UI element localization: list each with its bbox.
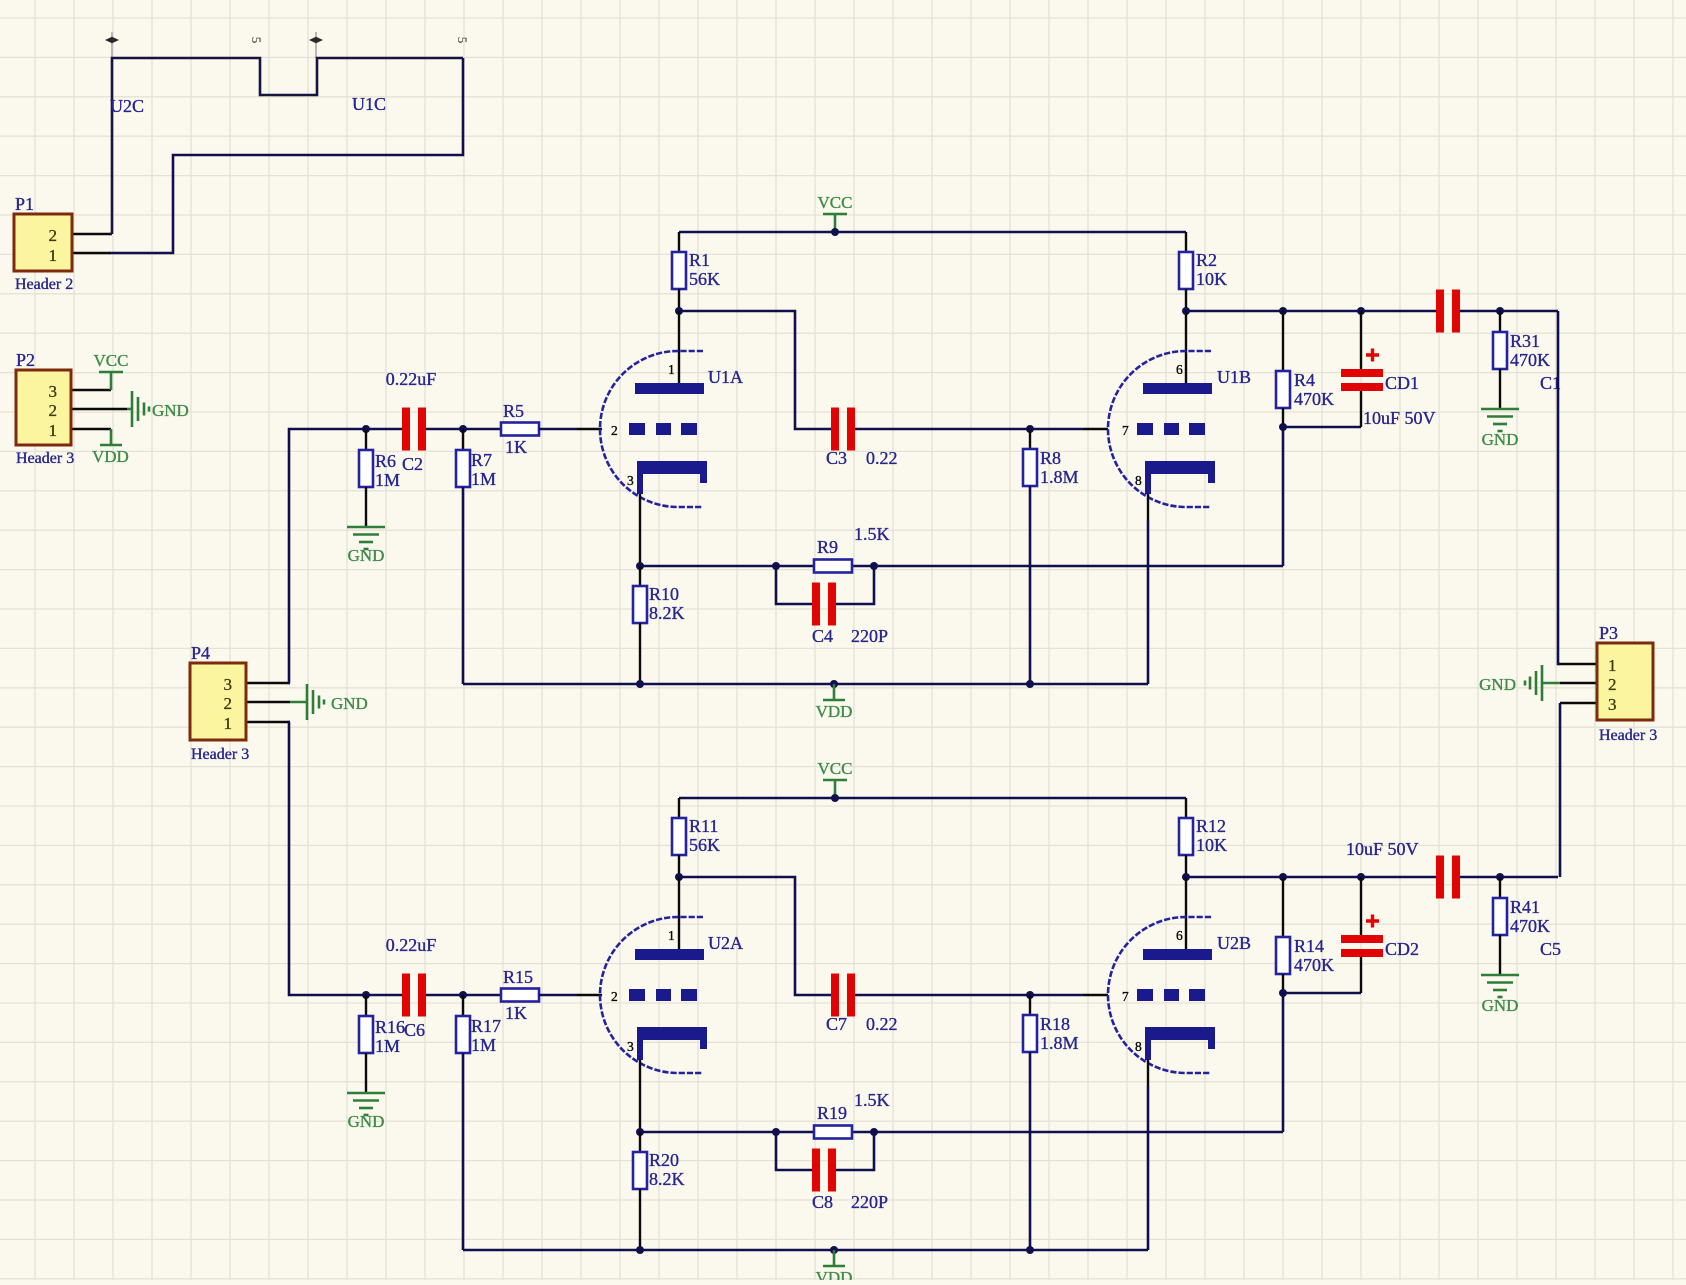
wire cathode U1B to VDD rail (1147, 520, 1150, 684)
power VCC (P2) (99, 372, 123, 390)
junction R9 right (870, 562, 878, 570)
svg-text:R7: R7 (471, 450, 492, 470)
svg-text:220P: 220P (851, 1192, 888, 1212)
svg-text:U1C: U1C (352, 94, 386, 114)
svg-text:GND: GND (348, 546, 385, 565)
svg-text:8: 8 (1135, 473, 1142, 488)
wire P3 pin2 to ground (1542, 682, 1560, 685)
wire R14 to CD2 bottom (1283, 992, 1361, 995)
junction cathode U2A (636, 1128, 644, 1136)
svg-text:C3: C3 (826, 448, 847, 468)
power VDD (P2) (100, 429, 122, 445)
junction R18 top (1026, 991, 1034, 999)
svg-text:R5: R5 (503, 401, 524, 421)
junction cathode U1A (636, 562, 644, 570)
wire output rail left (ch2) (1186, 876, 1437, 879)
ground GND (R31) (1481, 409, 1519, 431)
wire to cathode row (ch2) (1282, 993, 1285, 1132)
wire R4 bottom (1282, 408, 1284, 427)
svg-text:2: 2 (1608, 675, 1617, 694)
svg-text:2: 2 (224, 694, 233, 713)
svg-text:R18: R18 (1040, 1014, 1070, 1034)
svg-text:R14: R14 (1294, 936, 1324, 956)
svg-text:2: 2 (49, 401, 58, 420)
junction R6 top (362, 425, 370, 433)
svg-text:220P: 220P (851, 626, 888, 646)
capacitor CD1 10uF 50V (1341, 349, 1383, 392)
svg-text:R31: R31 (1510, 331, 1540, 351)
svg-text:56K: 56K (689, 269, 720, 289)
svg-text:R2: R2 (1196, 250, 1217, 270)
junction R7 top (459, 425, 467, 433)
svg-text:P3: P3 (1599, 623, 1618, 643)
resistor R1 56K (672, 252, 686, 289)
power VDD (ch2) (823, 1250, 845, 1266)
svg-text:GND: GND (331, 694, 368, 713)
junction R10 bottom (636, 680, 644, 688)
resistor R19 1.5K (814, 1126, 852, 1139)
capacitor CD2 10uF 50V (1341, 915, 1383, 958)
resistor R11 56K (672, 818, 686, 855)
svg-text:R11: R11 (689, 816, 718, 836)
junction VCC rail (ch2) (831, 794, 839, 802)
wire P2 pin2 stub (71, 408, 127, 411)
svg-text:8: 8 (1135, 1039, 1142, 1054)
svg-text:3: 3 (627, 1039, 634, 1054)
wire R6 to ground (365, 487, 367, 527)
svg-text:C2: C2 (402, 454, 423, 474)
svg-text:R41: R41 (1510, 897, 1540, 917)
pin cathode U2B (1147, 1060, 1149, 1086)
wire R1 top (678, 232, 680, 252)
wire P2 pin3 stub (71, 389, 111, 392)
power VDD (ch1) (823, 684, 845, 700)
svg-text:Header 3: Header 3 (191, 746, 249, 763)
svg-text:470K: 470K (1294, 955, 1334, 975)
svg-text:VDD: VDD (816, 1268, 853, 1280)
wire VCC rail (ch2) (679, 797, 1186, 800)
wire R1 bottom (678, 289, 680, 311)
svg-text:0.22uF: 0.22uF (386, 935, 437, 955)
junction R4 top (1279, 307, 1287, 315)
resistor R14 470K (1276, 937, 1290, 974)
wire R7 top (462, 429, 464, 451)
svg-text:U1A: U1A (708, 367, 743, 387)
junction R4 bottom (1279, 423, 1287, 431)
wire R2 top (1185, 232, 1187, 252)
svg-text:1K: 1K (505, 1003, 527, 1023)
wire output rail left (ch1) (1186, 310, 1437, 313)
wire R4 to CD1 bottom (1283, 426, 1361, 429)
wire R31 to ground (1499, 369, 1501, 409)
wire C8 left (776, 1132, 813, 1170)
wire C7 to grid U2B (853, 994, 1083, 997)
wire R7 to VDD rail (462, 487, 465, 684)
wire CD1 top (1360, 311, 1362, 369)
wire P1 pin1 stub (72, 252, 110, 255)
wire output ch1 to P3 pin1 (1558, 311, 1560, 664)
capacitor C7 0.22 (831, 974, 855, 1017)
wire R8 top (1029, 429, 1031, 450)
svg-text:CD1: CD1 (1385, 373, 1419, 393)
ground GND (R41) (1481, 975, 1519, 997)
svg-text:6: 6 (1176, 362, 1183, 377)
svg-text:R9: R9 (817, 537, 838, 557)
wire R11 bottom (678, 855, 680, 877)
resistor R9 1.5K (814, 560, 852, 573)
wire C4 right (836, 566, 874, 604)
svg-text:R17: R17 (471, 1016, 501, 1036)
svg-text:Header 2: Header 2 (15, 276, 73, 293)
svg-text:1: 1 (1608, 656, 1617, 675)
wire R20 top (639, 1132, 641, 1153)
ground GND (P3) (1525, 665, 1542, 701)
svg-text:1K: 1K (505, 437, 527, 457)
svg-text:R8: R8 (1040, 448, 1061, 468)
wire cathode row (ch2) (640, 1131, 1283, 1134)
junction CD2 top (1357, 873, 1365, 881)
capacitor C1 (1436, 290, 1460, 333)
power VCC (ch2) (823, 780, 847, 798)
junction R19 left (772, 1128, 780, 1136)
wire R17 top (462, 995, 464, 1017)
svg-text:C4: C4 (812, 626, 833, 646)
svg-text:Header 3: Header 3 (16, 450, 74, 467)
wire P4 pin3 to C2 (289, 429, 402, 683)
svg-text:GND: GND (1482, 430, 1519, 449)
wire P3 pin3 stub (1560, 702, 1597, 705)
capacitor C2 0.22uF (402, 408, 426, 451)
wire R15 to grid U2A (539, 994, 577, 997)
wire P3 pin2 stub (1560, 682, 1597, 685)
wire R14 bottom (1282, 974, 1284, 993)
junction anode U2A (675, 873, 683, 881)
svg-text:P1: P1 (15, 194, 34, 214)
connector P1 Header 2 (14, 214, 72, 271)
pin anode U2A (678, 877, 680, 959)
svg-text:3: 3 (1608, 695, 1617, 714)
wire heater bottom U1C to P1 pin1 (109, 58, 463, 253)
wire R5 to grid U1A (539, 428, 577, 431)
wire R20 bottom (639, 1189, 641, 1250)
connector P4 Header 3 (190, 663, 246, 740)
svg-text:C6: C6 (404, 1020, 425, 1040)
junction R14 bottom (1279, 989, 1287, 997)
junction VDD (ch2) (830, 1246, 838, 1254)
wire C6 to R15 (426, 994, 502, 997)
svg-text:R15: R15 (503, 967, 533, 987)
junction R14 top (1279, 873, 1287, 881)
svg-text:GND: GND (348, 1112, 385, 1131)
pin anode U2B (1185, 877, 1187, 959)
svg-text:P4: P4 (191, 643, 210, 663)
svg-text:0.22: 0.22 (866, 1014, 898, 1034)
svg-text:R1: R1 (689, 250, 710, 270)
wire VDD rail (ch1) (463, 683, 1148, 686)
svg-text:3: 3 (627, 473, 634, 488)
svg-text:6: 6 (1176, 928, 1183, 943)
svg-text:1.5K: 1.5K (854, 1090, 890, 1110)
junction R41 top (1496, 873, 1504, 881)
svg-text:C5: C5 (1540, 939, 1561, 959)
junction CD1 top (1357, 307, 1365, 315)
wire CD2 top (1360, 877, 1362, 935)
svg-text:U2C: U2C (110, 96, 144, 116)
wire cathode U2B to VDD rail (1147, 1086, 1150, 1250)
triode U2B (1108, 917, 1215, 1073)
pin anode U1B (1185, 311, 1187, 393)
wire anode U2A to C7 (679, 877, 833, 995)
svg-text:GND: GND (1479, 675, 1516, 694)
svg-text:1M: 1M (375, 1036, 400, 1056)
resistor R16 1M (359, 1016, 373, 1053)
capacitor C5 (1436, 856, 1460, 899)
resistor R41 470K (1493, 898, 1507, 935)
resistor R10 8.2K (633, 586, 647, 623)
resistor R31 470K (1493, 332, 1507, 369)
svg-text:1.5K: 1.5K (854, 524, 890, 544)
pin number marker 4 (U1C) (309, 37, 323, 43)
svg-text:10K: 10K (1196, 835, 1227, 855)
wire CD1 bottom (1360, 391, 1362, 427)
svg-text:10K: 10K (1196, 269, 1227, 289)
svg-text:7: 7 (1122, 989, 1129, 1004)
svg-text:GND: GND (152, 401, 189, 420)
wire P3 pin1 stub (1558, 663, 1597, 666)
svg-text:7: 7 (1122, 423, 1129, 438)
svg-text:2: 2 (49, 226, 58, 245)
svg-text:2: 2 (611, 989, 618, 1004)
svg-text:R12: R12 (1196, 816, 1226, 836)
svg-text:R4: R4 (1294, 370, 1315, 390)
wire cathode row (ch1) (640, 565, 1283, 568)
pin grid U2A (577, 994, 602, 996)
wire P4 pin3 stub (246, 682, 290, 685)
wire VCC rail (ch1) (679, 231, 1186, 234)
svg-text:1: 1 (668, 362, 675, 377)
pin grid U1B (1083, 428, 1108, 430)
pin grid U1A (577, 428, 602, 430)
wire CD2 bottom (1360, 957, 1362, 993)
svg-text:P2: P2 (16, 350, 35, 370)
svg-text:3: 3 (49, 382, 58, 401)
svg-text:R19: R19 (817, 1103, 847, 1123)
pin cathode U1B (1147, 494, 1149, 520)
svg-text:470K: 470K (1510, 916, 1550, 936)
capacitor C8 220P (812, 1149, 836, 1192)
pin stub heater U1C pin 4 (315, 32, 317, 58)
power VCC (ch1) (823, 214, 847, 232)
pin number marker 4 (U2C) (105, 37, 119, 43)
junction VCC rail (ch1) (831, 228, 839, 236)
wire C4 left (776, 566, 813, 604)
svg-text:470K: 470K (1294, 389, 1334, 409)
svg-text:1: 1 (49, 246, 58, 265)
pin stub heater U2C pin 4 (111, 32, 113, 58)
wire output rail right (ch2) (1460, 876, 1558, 879)
svg-text:VCC: VCC (818, 193, 853, 212)
wire P3 pin3 to output ch2 (1559, 703, 1562, 877)
wire C3 to grid U1B (853, 428, 1083, 431)
wire C8 right (836, 1132, 874, 1170)
svg-text:2: 2 (611, 423, 618, 438)
wire R17 to VDD rail (462, 1053, 465, 1250)
svg-text:1.8M: 1.8M (1040, 1033, 1079, 1053)
svg-text:1: 1 (224, 714, 233, 733)
svg-text:8.2K: 8.2K (649, 603, 685, 623)
svg-text:R16: R16 (375, 1017, 405, 1037)
wire C2 to R5 (426, 428, 502, 431)
svg-text:VDD: VDD (816, 702, 853, 721)
pin grid U2B (1083, 994, 1108, 996)
wire to cathode row (ch1) (1282, 427, 1285, 566)
svg-text:C8: C8 (812, 1192, 833, 1212)
capacitor C3 0.22 (831, 408, 855, 451)
svg-text:CD2: CD2 (1385, 939, 1419, 959)
wire R41 top (1499, 877, 1501, 899)
resistor R18 1.8M (1023, 1015, 1037, 1052)
svg-text:GND: GND (1482, 996, 1519, 1015)
wire P2 pin1 stub (71, 428, 111, 431)
resistor R8 1.8M (1023, 449, 1037, 486)
svg-text:470K: 470K (1510, 350, 1550, 370)
junction R8 bottom (1026, 680, 1034, 688)
svg-text:1: 1 (49, 421, 58, 440)
svg-text:1M: 1M (471, 469, 496, 489)
wire P4 pin2 to ground (290, 701, 307, 704)
resistor R17 1M (456, 1016, 470, 1053)
svg-text:U1B: U1B (1217, 367, 1251, 387)
svg-text:0.22uF: 0.22uF (386, 369, 437, 389)
svg-text:10uF 50V: 10uF 50V (1363, 408, 1436, 428)
wire R6 top (365, 429, 367, 451)
svg-text:1.8M: 1.8M (1040, 467, 1079, 487)
wire R4 top (1282, 311, 1284, 372)
junction R8 top (1026, 425, 1034, 433)
wire R16 top (365, 995, 367, 1017)
wire P2 pin2 to ground (127, 408, 132, 411)
svg-text:U2A: U2A (708, 933, 743, 953)
svg-text:1M: 1M (471, 1035, 496, 1055)
ground GND (P2) (132, 391, 149, 427)
ground GND (R6) (347, 527, 385, 549)
svg-text:8.2K: 8.2K (649, 1169, 685, 1189)
connector P2 Header 3 (16, 370, 71, 445)
resistor R12 10K (1179, 818, 1193, 855)
svg-text:VDD: VDD (92, 447, 129, 466)
svg-text:1: 1 (668, 928, 675, 943)
svg-text:10uF 50V: 10uF 50V (1346, 839, 1419, 859)
junction R17 top (459, 991, 467, 999)
junction anode U2B (1182, 873, 1190, 881)
triode U2A (600, 917, 707, 1073)
svg-text:VCC: VCC (818, 759, 853, 778)
svg-text:C7: C7 (826, 1014, 847, 1034)
wire R18 to VDD rail (1029, 1052, 1032, 1250)
junction VDD (ch1) (830, 680, 838, 688)
resistor R2 10K (1179, 252, 1193, 289)
wire R18 top (1029, 995, 1031, 1016)
junction anode U1B (1182, 307, 1190, 315)
svg-text:R20: R20 (649, 1150, 679, 1170)
svg-text:5: 5 (455, 37, 470, 44)
wire VDD rail (ch2) (463, 1249, 1148, 1252)
wire anode U1A to C3 (679, 311, 833, 429)
wire R8 to VDD rail (1029, 486, 1032, 684)
junction R9 left (772, 562, 780, 570)
wire R12 bottom (1185, 855, 1187, 877)
junction R18 bottom (1026, 1246, 1034, 1254)
pin anode U1A (678, 311, 680, 393)
svg-text:56K: 56K (689, 835, 720, 855)
wire heater to P1 pin2 (109, 233, 112, 236)
junction R20 bottom (636, 1246, 644, 1254)
resistor R5 1K (501, 423, 539, 436)
capacitor C4 220P (812, 583, 836, 626)
pin cathode U1A (639, 494, 641, 566)
svg-text:VCC: VCC (94, 351, 129, 370)
wire R41 to ground (1499, 935, 1501, 975)
connector P3 Header 3 (1597, 643, 1653, 720)
junction R19 right (870, 1128, 878, 1136)
resistor R7 1M (456, 450, 470, 487)
pin cathode U2A (639, 1060, 641, 1132)
wire R14 top (1282, 877, 1284, 938)
junction R31 top (1496, 307, 1504, 315)
wire P1 pin2 stub (72, 233, 110, 236)
ground GND (R16) (347, 1093, 385, 1115)
svg-text:0.22: 0.22 (866, 448, 898, 468)
junction anode U1A (675, 307, 683, 315)
junction R16 top (362, 991, 370, 999)
svg-text:U2B: U2B (1217, 933, 1251, 953)
svg-text:5: 5 (249, 37, 264, 44)
wire P4 pin2 stub (246, 701, 290, 704)
resistor R6 1M (359, 450, 373, 487)
resistor R20 8.2K (633, 1152, 647, 1189)
ground GND (P4) (307, 684, 324, 720)
triode U1A (600, 351, 707, 507)
svg-text:1M: 1M (375, 470, 400, 490)
triode U1B (1108, 351, 1215, 507)
wire R12 top (1185, 798, 1187, 818)
svg-text:3: 3 (224, 675, 233, 694)
wire P4 pin1 to C6 (289, 722, 402, 995)
resistor R4 470K (1276, 371, 1290, 408)
svg-text:R6: R6 (375, 451, 396, 471)
wire output rail right (ch1) (1460, 310, 1558, 313)
wire R10 bottom (639, 623, 641, 684)
capacitor C6 0.22uF (402, 974, 426, 1017)
resistor R15 1K (501, 989, 539, 1002)
wire P4 pin1 stub (246, 721, 290, 724)
wire R10 top (639, 566, 641, 587)
wire heater top U2C/U1C (112, 58, 463, 234)
wire R11 top (678, 798, 680, 818)
wire R2 bottom (1185, 289, 1187, 311)
wire R16 to ground (365, 1053, 367, 1093)
svg-text:Header 3: Header 3 (1599, 727, 1657, 744)
wire R31 top (1499, 311, 1501, 333)
svg-text:R10: R10 (649, 584, 679, 604)
